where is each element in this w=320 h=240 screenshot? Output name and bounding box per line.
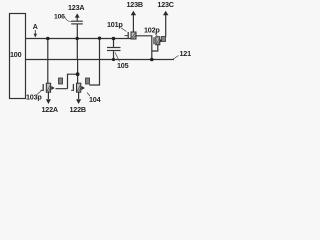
junction dot bus x113.5 cap105 top	[112, 37, 116, 41]
terminal arrow 123B	[131, 11, 136, 16]
wire: output rail 121	[26, 59, 175, 61]
wire: 122A shaft	[47, 92, 49, 99]
wire: capacitor 105 top stub	[113, 39, 115, 48]
leader 102p	[155, 34, 158, 37]
leader 104	[87, 93, 90, 97]
svg-text:A: A	[33, 24, 38, 31]
driver block 100	[10, 14, 26, 99]
svg-text:123B: 123B	[127, 0, 143, 9]
svg-text:105: 105	[117, 61, 129, 70]
junction dot bus x77 cap106	[76, 37, 79, 40]
transistor 101p	[125, 32, 137, 39]
wire: capacitor 106 stub to bus	[76, 24, 78, 60]
svg-text:123A: 123A	[68, 3, 84, 12]
transistor 102p	[154, 37, 166, 45]
capacitor 106 (top left)	[71, 17, 83, 24]
terminal arrow 122A	[46, 99, 51, 104]
svg-text:122B: 122B	[70, 105, 86, 114]
svg-text:103p: 103p	[26, 93, 42, 102]
wire: 101p right lead down to rail	[136, 36, 152, 60]
junction dot bus x99.5	[98, 37, 101, 40]
node A arrow	[34, 30, 37, 38]
capacitor 105 (middle)	[107, 48, 121, 51]
wire: 102p drain stub	[160, 40, 162, 42]
wire: capacitor 105 bottom stub	[113, 51, 115, 60]
wire: node A drop to transistor 103p	[47, 39, 49, 84]
svg-text:121: 121	[180, 49, 192, 58]
terminal arrow 123A	[75, 13, 80, 17]
junction dot bus x47.8	[46, 37, 50, 41]
svg-text:122A: 122A	[42, 105, 58, 114]
wire: 102p bottom lead	[152, 45, 158, 51]
wire: 122B shaft	[78, 92, 80, 99]
terminal arrow 123C	[163, 11, 168, 16]
leader 103p	[37, 91, 42, 95]
junction dot1 x77.6 y74.2	[76, 72, 80, 76]
svg-text:100: 100	[10, 50, 22, 59]
wire: bus drop x99.5 to 104 drain	[89, 39, 99, 86]
wire: top bus node A line	[26, 38, 133, 40]
leader 101p	[121, 28, 127, 32]
wire: 123B shaft	[132, 15, 134, 33]
terminal arrow 122B	[76, 99, 81, 104]
leader 121	[173, 56, 179, 60]
svg-text:123C: 123C	[157, 0, 173, 9]
wire: 103p source link to dot1	[56, 74, 78, 89]
svg-text:104: 104	[89, 95, 101, 104]
junction dot rail x113.5 cap105 bottom	[112, 58, 115, 61]
junction dot rail x151.8	[150, 58, 154, 62]
leader 105	[115, 53, 120, 62]
wire: 123C shaft	[165, 15, 167, 37]
wire: rail drop to dot1	[77, 60, 79, 84]
transistor 103p	[41, 78, 63, 92]
svg-text:106: 106	[54, 14, 65, 21]
svg-text:102p: 102p	[144, 26, 160, 35]
transistor 104	[71, 78, 90, 92]
leader 106	[65, 17, 72, 22]
